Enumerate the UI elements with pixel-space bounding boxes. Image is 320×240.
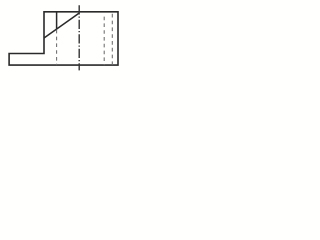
outline of L-shaped block (visible edges)	[9, 12, 118, 65]
diagonal visible edge (oblique cut)	[44, 13, 79, 38]
hidden line (dashed) near right edge	[111, 14, 113, 65]
background	[0, 0, 125, 77]
hidden line (dashed) right-middle	[103, 17, 105, 66]
short vertical visible edge	[56, 12, 58, 29]
hidden line (dashed) below diagonal	[56, 30, 58, 65]
center line (dash-dot)	[78, 5, 80, 70]
